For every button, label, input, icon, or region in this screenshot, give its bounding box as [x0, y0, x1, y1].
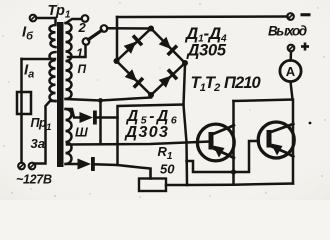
diode arm L-B	[124, 68, 144, 88]
transistor T1	[197, 124, 234, 161]
svg-text:3а: 3а	[31, 136, 45, 151]
switch arm	[89, 31, 102, 40]
diode D5	[80, 111, 97, 125]
svg-text:1: 1	[76, 46, 83, 61]
wire ammeter to collector rail	[291, 82, 293, 100]
wire D5/D6 cathode join vertical	[116, 118, 119, 166]
wire winding II top to tap 2	[66, 19, 82, 23]
resistor R1	[139, 179, 166, 192]
terminal mains right	[29, 163, 36, 170]
wire tap 1 to winding II	[68, 45, 86, 57]
wire plus terminal to ammeter	[289, 52, 292, 61]
winding II (secondary)	[66, 23, 72, 99]
terminal Ib	[30, 15, 37, 22]
wire fuse drop	[20, 59, 23, 92]
junction on emitter cross	[231, 169, 236, 174]
switch common	[101, 25, 108, 32]
svg-text:~127В: ~127В	[16, 173, 52, 187]
wire mains right terminal to primary bottom	[35, 101, 56, 164]
terminal minus	[287, 13, 294, 20]
wire bridge left to minus rail	[116, 17, 119, 61]
bridge diodes	[123, 34, 178, 88]
svg-text:Д303: Д303	[124, 124, 170, 141]
wire T1 bus vertical	[232, 101, 235, 185]
diode arm L-T	[123, 34, 143, 54]
wire Ib terminal to primary	[37, 17, 56, 20]
wire minus rail	[117, 15, 288, 18]
minus sign	[301, 13, 311, 16]
svg-text:2: 2	[78, 20, 87, 35]
winding Ia (primary lower section)	[50, 52, 56, 101]
plus sign	[301, 43, 309, 51]
wire switch to bridge top	[107, 27, 151, 30]
svg-text:П: П	[78, 62, 87, 76]
wire winding III centre tap to T1 base	[67, 142, 209, 145]
winding III (secondary low)	[66, 109, 72, 164]
wire winding II bottom to bridge	[66, 95, 151, 101]
svg-text:Ш: Ш	[75, 125, 88, 140]
wire fuse to mains terminal	[20, 114, 23, 163]
wire junction to tap wire	[99, 101, 102, 145]
transistor T2	[258, 122, 294, 158]
terminal tap1	[83, 38, 90, 45]
fuse Pr1	[17, 92, 31, 114]
wire D6 to R1	[94, 164, 151, 178]
wire Ia tap	[22, 58, 56, 61]
diode D6 wire	[66, 163, 78, 166]
wire bridge right drop	[184, 65, 188, 185]
bridge rectifier D1-D4	[117, 29, 186, 96]
winding Ib (primary top section)	[50, 18, 56, 47]
wire T2 bus vertical	[292, 100, 295, 184]
svg-text:Д305: Д305	[186, 42, 227, 60]
ammeter A	[280, 60, 301, 81]
svg-text:А: А	[286, 64, 296, 79]
svg-text:50: 50	[160, 162, 175, 177]
wire base jog to T2 base	[187, 141, 259, 172]
terminal mains left	[18, 163, 25, 170]
terminal plus	[288, 45, 295, 52]
diode arm B-R	[158, 68, 178, 88]
svg-text:Выход: Выход	[268, 24, 307, 39]
node junction	[98, 98, 103, 103]
terminal tap2	[82, 15, 89, 22]
transformer T1 core	[57, 22, 64, 167]
diode D5 wire	[66, 109, 80, 118]
diode D6	[78, 157, 95, 171]
bottom emitter rail	[187, 184, 293, 186]
diode arm T-R	[158, 36, 178, 56]
speck	[309, 122, 312, 125]
wire D5 cathode up and right	[96, 105, 184, 118]
collector rail to ammeter	[234, 100, 293, 102]
wire R1 to bottom rail	[166, 184, 187, 187]
